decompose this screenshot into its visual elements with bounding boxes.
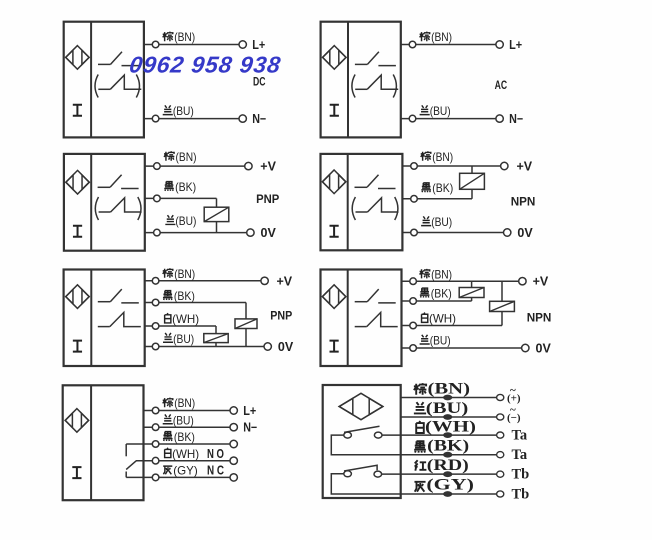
- svg-text:(BU): (BU): [431, 215, 452, 229]
- svg-text:+V: +V: [277, 274, 293, 288]
- U3 parentheses: [95, 197, 98, 220]
- label BK U4: [421, 183, 431, 192]
- svg-text:PNP: PNP: [256, 192, 279, 206]
- svg-text:(BN): (BN): [432, 150, 453, 164]
- terminal 0V U5: [264, 343, 271, 350]
- svg-text:(BN): (BN): [431, 267, 452, 281]
- svg-text:0V: 0V: [536, 342, 552, 356]
- U3 programmable contact: [99, 211, 111, 213]
- svg-text:N C: N C: [207, 464, 224, 478]
- wire BN U4: [402, 165, 500, 167]
- svg-text:(BN): (BN): [428, 381, 471, 398]
- terminal (-) U8: [497, 414, 504, 420]
- sensor U6 letter I: [330, 341, 339, 352]
- U6 programmable contact: [355, 326, 367, 328]
- label BK U8: [414, 441, 426, 452]
- Ta arm: [344, 426, 380, 432]
- svg-text:(BU): (BU): [175, 214, 196, 228]
- svg-text:0V: 0V: [517, 226, 533, 240]
- svg-text:0962 958 938: 0962 958 938: [128, 51, 283, 77]
- label BU U6: [420, 335, 430, 344]
- svg-text:0V: 0V: [261, 226, 277, 240]
- svg-text:(BN): (BN): [174, 267, 195, 281]
- svg-text:(BK): (BK): [174, 430, 195, 444]
- svg-text:0V: 0V: [278, 340, 294, 354]
- sensor U7: [63, 385, 144, 500]
- wire BK U4: [402, 198, 472, 200]
- svg-text:(BK): (BK): [432, 181, 453, 195]
- svg-text:AC: AC: [495, 78, 508, 92]
- Ta left contact: [344, 432, 352, 438]
- wire WH U6: [402, 325, 503, 327]
- svg-text:(BN): (BN): [174, 396, 195, 410]
- terminal N- U7: [230, 424, 237, 431]
- sensor U5: [64, 270, 145, 367]
- relay NC stub: [125, 472, 127, 478]
- U1 NO contact: [98, 63, 111, 65]
- label GY U8: [414, 482, 425, 492]
- terminal N- U1: [239, 115, 246, 122]
- svg-text:N−: N−: [509, 112, 523, 126]
- terminal GY U7: [230, 474, 237, 481]
- svg-text:N O: N O: [207, 447, 224, 461]
- svg-text:(BK): (BK): [431, 287, 452, 301]
- U4 programmable contact: [356, 211, 368, 213]
- label WH U5: [165, 313, 171, 323]
- svg-text:~: ~: [510, 404, 516, 416]
- sensor U6 inductive symbol: [322, 285, 345, 309]
- wire WH U5: [145, 325, 216, 327]
- terminal Ta2 U8: [497, 452, 504, 458]
- sensor U5 letter I: [73, 341, 82, 352]
- label BN U5: [163, 268, 173, 278]
- wire BN U8: [401, 397, 497, 399]
- wire BU U4: [402, 232, 503, 234]
- svg-text:(BU): (BU): [173, 332, 194, 346]
- label BN U6: [420, 269, 430, 279]
- wire BK U5: [145, 302, 246, 304]
- label BU U5: [163, 333, 173, 342]
- load on BN U4: [471, 166, 473, 173]
- label BU U4: [421, 216, 431, 225]
- svg-text:+V: +V: [517, 160, 533, 174]
- svg-text:(BU): (BU): [430, 104, 451, 118]
- terminal Tb1 U8: [497, 471, 504, 477]
- label WH U8: [416, 421, 424, 433]
- sensor U7 letter I: [72, 467, 81, 478]
- wire BU U7: [144, 426, 231, 428]
- sensor U5 inductive symbol: [66, 285, 89, 309]
- label BU U8: [414, 402, 426, 413]
- label WH U6: [422, 313, 428, 323]
- label BK U7: [163, 432, 173, 441]
- svg-text:N−: N−: [252, 112, 266, 126]
- label BN U8: [414, 383, 427, 395]
- load 1 BN to BK U6: [471, 281, 473, 287]
- label BK U6: [420, 288, 430, 297]
- sensor U2 inductive symbol: [323, 46, 346, 70]
- svg-text:+V: +V: [260, 160, 276, 174]
- U4 parentheses: [352, 197, 355, 220]
- label BN U3: [164, 151, 174, 161]
- relay common stub: [125, 444, 127, 456]
- terminal L+ U7: [230, 407, 237, 414]
- relay arm: [126, 461, 136, 470]
- U1 programmable contact: [98, 88, 110, 90]
- U6 NO contact: [355, 301, 368, 303]
- terminal (+) U8: [497, 394, 504, 400]
- svg-text:(WH): (WH): [172, 312, 199, 326]
- svg-text:~: ~: [510, 385, 516, 397]
- wire WH U7 (NO): [136, 460, 230, 462]
- svg-text:NPN: NPN: [527, 311, 552, 325]
- svg-text:+V: +V: [533, 275, 549, 289]
- wire BU U3: [145, 232, 247, 234]
- Ta right contact: [374, 432, 382, 438]
- wire BN U7: [144, 410, 231, 412]
- svg-text:NPN: NPN: [511, 194, 536, 208]
- U2 parentheses: [352, 75, 355, 98]
- wire GY U7 (NC): [126, 476, 230, 478]
- load on BK branch U5: [245, 303, 247, 319]
- Ta-BK link: [331, 435, 400, 455]
- Tb left contact: [344, 471, 352, 477]
- svg-text:(BN): (BN): [174, 30, 195, 44]
- wire BK U7 (relay common): [126, 443, 230, 445]
- svg-text:(WH): (WH): [172, 447, 199, 461]
- terminal Tb2 U8: [497, 491, 504, 497]
- wire BU U5: [145, 346, 264, 348]
- sensor U3 letter I: [73, 226, 82, 237]
- svg-text:(BK): (BK): [174, 289, 195, 303]
- wire BU U8: [401, 416, 497, 418]
- terminal +V U4: [501, 162, 508, 169]
- sensor U3 inductive symbol: [66, 170, 89, 194]
- load on BK U3: [216, 198, 218, 207]
- svg-text:Ta: Ta: [512, 447, 528, 463]
- svg-text:L+: L+: [252, 38, 265, 52]
- sensor U2: [321, 22, 401, 138]
- sensor U7 inductive symbol: [65, 409, 88, 433]
- svg-text:(WH): (WH): [425, 419, 476, 436]
- sensor U3: [64, 154, 145, 251]
- wire BU U6: [402, 347, 522, 349]
- sensor U1: [64, 22, 144, 138]
- terminal N- U2: [496, 115, 503, 122]
- svg-text:(WH): (WH): [429, 312, 456, 326]
- terminal 0V U3: [247, 229, 254, 236]
- svg-text:(BU): (BU): [426, 400, 469, 417]
- terminal 0V U4: [504, 229, 511, 236]
- terminal +V U5: [261, 277, 268, 284]
- label BU U1: [163, 105, 173, 114]
- svg-text:(BU): (BU): [173, 413, 194, 427]
- wire BU U2: [401, 118, 496, 120]
- U1 parentheses: [95, 75, 98, 98]
- terminal +V U3: [245, 162, 252, 169]
- load on WH branch U5: [215, 326, 217, 334]
- label BN U4: [421, 151, 431, 161]
- label BU U2: [420, 105, 430, 114]
- Tb-GY link: [331, 474, 400, 494]
- U5 NO contact: [98, 301, 111, 303]
- terminal Ta1 U8: [497, 432, 504, 438]
- label BK U5: [163, 291, 173, 300]
- sensor U4 inductive symbol: [322, 170, 345, 194]
- svg-text:(BU): (BU): [173, 104, 194, 118]
- wire WH U8: [382, 434, 497, 436]
- Tb right contact: [374, 471, 382, 477]
- sensor U2 letter I: [330, 105, 339, 116]
- wire RD U8: [382, 473, 497, 475]
- wire BN U6: [402, 280, 519, 282]
- U8 inductive symbol: [339, 393, 383, 419]
- wire BK U6: [402, 300, 472, 302]
- terminal L+ U2: [496, 41, 503, 48]
- label WH U7: [165, 448, 171, 458]
- terminal WH U7: [230, 457, 237, 464]
- svg-text:(RD): (RD): [427, 457, 469, 474]
- label BU U7: [163, 414, 173, 423]
- U4 NO contact: [355, 186, 368, 188]
- terminal +V U6: [519, 278, 526, 285]
- sensor U8 (timer): [323, 385, 401, 498]
- wire BN U1: [144, 44, 239, 46]
- svg-text:(BN): (BN): [431, 30, 452, 44]
- svg-text:N−: N−: [243, 421, 257, 435]
- svg-text:Tb: Tb: [512, 467, 530, 483]
- sensor U1 letter I: [73, 105, 82, 116]
- wire BN U3: [145, 165, 245, 167]
- svg-text:(BN): (BN): [176, 150, 197, 164]
- label BK U3: [164, 182, 174, 191]
- U2 NO contact: [355, 63, 368, 65]
- svg-text:(GY): (GY): [173, 464, 198, 478]
- terminal BK U7: [230, 440, 237, 447]
- U2 programmable contact: [355, 88, 367, 90]
- wire BN U2: [401, 44, 496, 46]
- sensor U4 letter I: [330, 226, 339, 237]
- svg-text:L+: L+: [243, 404, 256, 418]
- svg-text:L+: L+: [509, 38, 522, 52]
- terminal 0V U6: [522, 344, 529, 351]
- load 2 BN to WH U6: [501, 281, 503, 301]
- svg-text:Ta: Ta: [512, 427, 528, 443]
- svg-text:(BK): (BK): [427, 438, 469, 455]
- sensor U4: [321, 154, 403, 250]
- svg-text:(BU): (BU): [430, 334, 451, 348]
- svg-text:(BK): (BK): [175, 180, 196, 194]
- label RD U8: [415, 460, 427, 470]
- U5 programmable contact: [98, 326, 110, 328]
- Tb arm: [344, 465, 377, 471]
- watermark phone number: [128, 51, 283, 77]
- wire BU U1: [144, 118, 239, 120]
- wire GY U8: [401, 493, 497, 495]
- sensor U1 inductive symbol: [66, 46, 89, 70]
- wire BK U3: [145, 197, 217, 199]
- label BN U7: [163, 398, 173, 408]
- label BN U2: [420, 32, 430, 42]
- label GY U7: [163, 466, 172, 474]
- wire BN U5: [145, 280, 261, 282]
- label BN U1: [163, 32, 173, 42]
- sensor U6: [321, 270, 402, 367]
- svg-text:PNP: PNP: [270, 308, 292, 322]
- svg-text:Tb: Tb: [512, 486, 530, 502]
- terminal L+ U1: [239, 41, 246, 48]
- svg-text:(GY): (GY): [426, 477, 474, 494]
- U3 NO contact: [98, 186, 111, 188]
- label BU U3: [165, 215, 175, 224]
- wire BK U8: [443, 452, 452, 458]
